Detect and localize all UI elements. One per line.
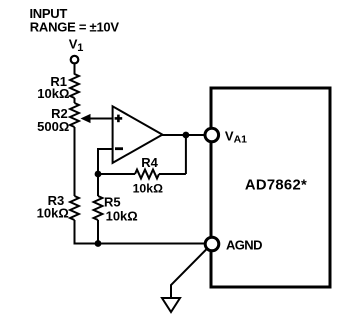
svg-text:10kΩ: 10kΩ	[37, 205, 69, 220]
svg-text:10kΩ: 10kΩ	[133, 181, 164, 195]
svg-text:R4: R4	[141, 155, 158, 170]
svg-text:AGND: AGND	[226, 237, 262, 252]
svg-text:RANGE = ±10V: RANGE = ±10V	[30, 20, 120, 35]
svg-text:1: 1	[77, 42, 83, 54]
svg-text:V: V	[225, 128, 234, 143]
svg-text:AD7862*: AD7862*	[245, 178, 307, 194]
svg-text:10kΩ: 10kΩ	[106, 208, 138, 223]
svg-text:500Ω: 500Ω	[37, 119, 69, 134]
svg-text:A1: A1	[234, 134, 248, 146]
svg-text:R5: R5	[104, 194, 121, 209]
svg-text:10kΩ: 10kΩ	[37, 86, 69, 101]
